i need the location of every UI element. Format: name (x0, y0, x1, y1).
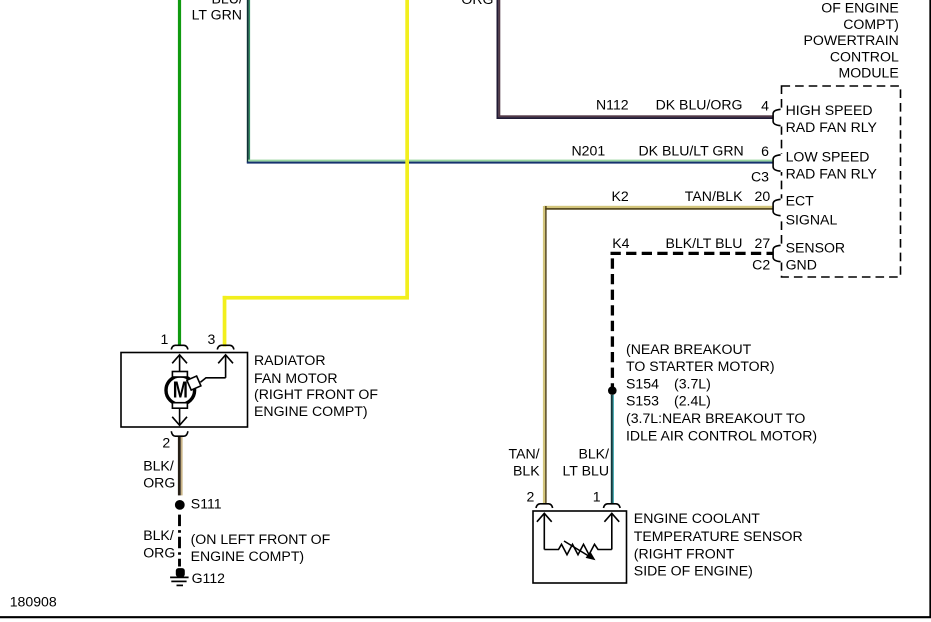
svg-text:ORG: ORG (143, 474, 175, 490)
svg-text:M: M (173, 377, 188, 403)
svg-text:BLK/LT BLU: BLK/LT BLU (665, 235, 742, 251)
svg-text:BLK/: BLK/ (143, 527, 174, 543)
svg-text:HIGH SPEED: HIGH SPEED (786, 102, 873, 118)
svg-text:K2: K2 (612, 188, 629, 204)
svg-text:2: 2 (527, 488, 535, 504)
svg-text:4: 4 (761, 98, 769, 114)
svg-text:SENSOR: SENSOR (786, 239, 846, 255)
svg-text:G112: G112 (192, 570, 226, 586)
svg-text:TEMPERATURE SENSOR: TEMPERATURE SENSOR (634, 528, 803, 544)
svg-text:3: 3 (207, 331, 215, 347)
svg-text:ENGINE COMPT): ENGINE COMPT) (191, 548, 305, 564)
svg-text:(RIGHT FRONT: (RIGHT FRONT (634, 545, 735, 561)
svg-text:TO STARTER MOTOR): TO STARTER MOTOR) (626, 358, 775, 374)
svg-text:POWERTRAIN: POWERTRAIN (804, 32, 899, 48)
svg-text:SIDE OF ENGINE): SIDE OF ENGINE) (634, 563, 753, 579)
svg-text:GND: GND (786, 257, 817, 273)
svg-text:(3.7L:NEAR BREAKOUT TO: (3.7L:NEAR BREAKOUT TO (626, 410, 805, 426)
svg-text:2: 2 (162, 435, 170, 451)
svg-text:27: 27 (755, 235, 771, 251)
svg-text:RAD FAN RLY: RAD FAN RLY (786, 165, 878, 181)
svg-text:OF ENGINE: OF ENGINE (821, 0, 899, 16)
svg-text:COMPT): COMPT) (843, 16, 899, 32)
svg-text:BLK: BLK (513, 463, 540, 479)
svg-text:ORG: ORG (143, 544, 175, 560)
svg-text:ENGINE COMPT): ENGINE COMPT) (254, 403, 368, 419)
svg-text:DK BLU/LT GRN: DK BLU/LT GRN (638, 143, 743, 159)
svg-text:ENGINE COOLANT: ENGINE COOLANT (634, 510, 760, 526)
svg-text:RAD FAN RLY: RAD FAN RLY (786, 119, 878, 135)
svg-text:TAN/BLK: TAN/BLK (685, 188, 743, 204)
svg-text:ORG: ORG (461, 0, 493, 7)
svg-text:IDLE AIR CONTROL MOTOR): IDLE AIR CONTROL MOTOR) (626, 427, 817, 443)
svg-text:RADIATOR: RADIATOR (254, 352, 326, 368)
svg-text:S154: S154 (626, 376, 659, 392)
svg-text:MODULE: MODULE (838, 65, 898, 81)
svg-text:N201: N201 (572, 143, 606, 159)
svg-text:FAN MOTOR: FAN MOTOR (254, 370, 338, 386)
svg-text:(RIGHT FRONT OF: (RIGHT FRONT OF (254, 386, 378, 402)
svg-text:DK BLU/ORG: DK BLU/ORG (656, 97, 743, 113)
svg-text:6: 6 (761, 143, 769, 159)
svg-text:(NEAR BREAKOUT: (NEAR BREAKOUT (626, 341, 752, 357)
svg-text:BLK/: BLK/ (143, 457, 174, 473)
svg-text:180908: 180908 (10, 593, 57, 609)
svg-text:S111: S111 (191, 496, 222, 512)
svg-text:LT BLU: LT BLU (563, 463, 609, 479)
svg-text:1: 1 (593, 488, 601, 504)
svg-text:(2.4L): (2.4L) (674, 393, 711, 409)
svg-text:N112: N112 (596, 97, 629, 113)
svg-text:BLK/: BLK/ (578, 445, 609, 461)
svg-text:CONTROL: CONTROL (830, 48, 899, 64)
svg-text:K4: K4 (612, 235, 629, 251)
svg-text:SIGNAL: SIGNAL (786, 211, 838, 227)
svg-text:S153: S153 (626, 393, 659, 409)
svg-text:C3: C3 (751, 168, 769, 184)
svg-text:(3.7L): (3.7L) (674, 376, 711, 392)
svg-text:1: 1 (160, 331, 168, 347)
svg-text:C2: C2 (752, 256, 770, 272)
svg-text:LT GRN: LT GRN (192, 6, 242, 22)
svg-text:20: 20 (755, 188, 771, 204)
svg-text:ECT: ECT (786, 192, 815, 208)
svg-text:LOW SPEED: LOW SPEED (786, 148, 870, 164)
svg-text:(ON LEFT FRONT OF: (ON LEFT FRONT OF (191, 531, 331, 547)
svg-text:TAN/: TAN/ (509, 445, 540, 461)
